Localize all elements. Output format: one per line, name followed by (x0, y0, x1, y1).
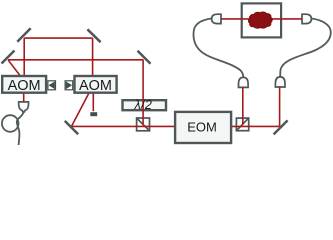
beam through atom cell C2 to C3 (221, 18, 302, 20)
PBS cube PBS1 (below λ/2) (136, 118, 150, 132)
beam AOM1 diagonal to M2 (8, 60, 22, 78)
beam AOM2 down to beam dump (92, 90, 94, 111)
atom vapor cell box (top right) (242, 3, 281, 37)
beam M4 down through λ/2 to PBS1 (142, 60, 144, 125)
beam M2 to M4 (middle horizontal) (8, 59, 143, 61)
fiber coupler C4 (above PBS2, faces down) (239, 77, 249, 87)
mirror M1 (top left) (17, 28, 30, 41)
beam M1 down into AOM1 (23, 38, 25, 80)
AOM2 box (75, 76, 117, 93)
fiber F1 (laser input fiber with loop, bottom-left) (2, 111, 24, 146)
AOM1 box (2, 76, 46, 93)
atom cloud blob inside cell (248, 12, 272, 28)
fiber F3 (cell right side down to mirror coupler) (280, 19, 331, 78)
svg-text:AOM: AOM (8, 78, 41, 94)
mirror M3 (top middle) (87, 29, 100, 42)
beam AOM1 to coupler C1 (23, 92, 25, 102)
beam PBS2 up to coupler C4 (242, 87, 244, 124)
PBS cube PBS2 (right of EOM) (236, 118, 249, 131)
mirror M2 (left) (2, 51, 15, 64)
beam AOM2 diagonal to M5 (72, 91, 91, 126)
half-wave plate box λ/2 (123, 100, 167, 110)
mirror M5 (bottom left) (65, 121, 78, 134)
beam M3 down into AOM2 (92, 38, 94, 80)
EOM box (175, 112, 231, 143)
svg-text:AOM: AOM (79, 78, 112, 94)
svg-text:λ/2: λ/2 (134, 98, 153, 112)
beam dump below AOM2 (90, 112, 97, 116)
svg-text:EOM: EOM (187, 120, 217, 135)
AOM2 RF transducer (65, 80, 74, 90)
mirror M4 (middle) (138, 51, 151, 64)
fiber coupler C5 (above mirror M6, faces down) (275, 77, 285, 87)
beams (8, 19, 302, 127)
beam M1 to M3 (top horizontal) (24, 37, 92, 39)
mirror M6 (bottom right) (274, 120, 288, 134)
fiber F2 (PBS2 output to cell left side) (193, 18, 243, 77)
AOM1 RF transducer (47, 80, 56, 90)
beam M6 up to coupler C5 (279, 87, 281, 126)
fiber coupler C1 (below AOM1, faces up) (19, 102, 29, 112)
fiber coupler C2 (left of atom cell, faces right) (212, 14, 221, 23)
fiber coupler C3 (right of atom cell, faces left) (302, 14, 311, 23)
beam M5 to M6 (bottom horizontal through PBS1, EOM, PBS2) (72, 125, 280, 127)
